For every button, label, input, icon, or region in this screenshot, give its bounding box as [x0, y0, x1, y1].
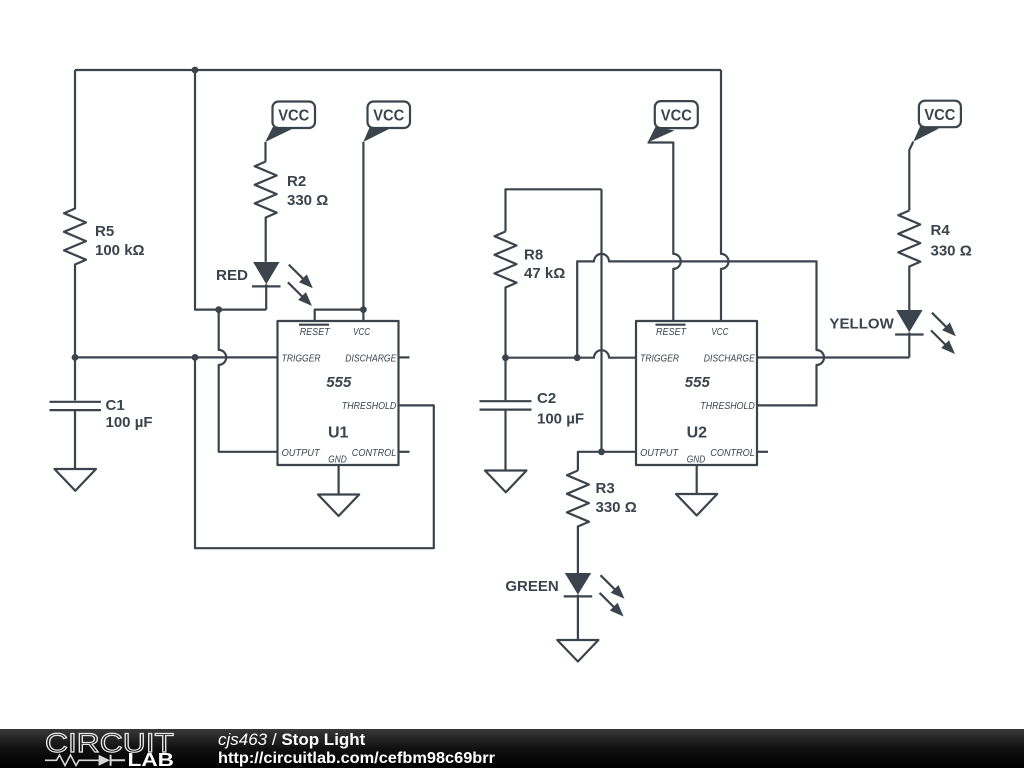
- resistor R4: [898, 211, 920, 311]
- svg-text:http://circuitlab.com/cefbm98c: http://circuitlab.com/cefbm98c69brr: [218, 750, 495, 767]
- resistor R2: [255, 162, 277, 262]
- VCC flag 2 (above U1 VCC pin): [363, 102, 410, 143]
- node junction dot output-node x=218.7: [215, 306, 222, 313]
- svg-text:100 µF: 100 µF: [106, 414, 153, 431]
- resistor R3: [567, 471, 589, 574]
- svg-text:330 Ω: 330 Ω: [596, 499, 637, 516]
- wire VCC2 down to U1 VCC/RESET node: [362, 142, 364, 310]
- wire VCC1 to R2: [264, 142, 266, 162]
- svg-text:330 Ω: 330 Ω: [287, 192, 328, 209]
- svg-text:VCC: VCC: [373, 108, 404, 125]
- ground under C2: [485, 471, 527, 493]
- ground under U1: [318, 495, 359, 517]
- node junction dot trigger/threshold loop x=195: [192, 354, 199, 361]
- ground under GREEN LED: [557, 640, 598, 662]
- ground under U2: [676, 494, 717, 516]
- svg-text:TRIGGER: TRIGGER: [640, 354, 679, 365]
- svg-text:THRESHOLD: THRESHOLD: [700, 401, 755, 412]
- wire U1 GND stub: [338, 465, 340, 495]
- node junction dot U1 VCC: [360, 306, 367, 313]
- svg-text:GREEN: GREEN: [505, 578, 558, 595]
- wire U2 GND stub: [696, 465, 698, 494]
- svg-text:LAB: LAB: [128, 750, 175, 768]
- wire U2 trigger line (hops at x=601.5): [506, 350, 637, 358]
- svg-text:R3: R3: [596, 480, 615, 497]
- svg-text:C1: C1: [106, 397, 125, 414]
- op-amp/timer U1 555 box: [278, 321, 399, 465]
- svg-text:U1: U1: [328, 425, 349, 442]
- svg-text:R8: R8: [524, 247, 543, 264]
- svg-text:VCC: VCC: [661, 107, 692, 124]
- resistor R5: [64, 70, 86, 357]
- svg-text:VCC: VCC: [711, 327, 729, 338]
- svg-text:RED: RED: [216, 267, 248, 284]
- svg-text:TRIGGER: TRIGGER: [282, 354, 321, 365]
- node junction dot U2 output x=601.5: [598, 448, 605, 455]
- wire U1 output node: rail drop at x=195 down and right to RED LED cathode: [195, 70, 266, 310]
- svg-text:RESET: RESET: [656, 327, 687, 338]
- capacitor C1: [50, 357, 102, 469]
- svg-text:VCC: VCC: [353, 327, 371, 338]
- wire U2 CONTROL stub: [757, 451, 768, 453]
- timer U2 555 box: [636, 321, 757, 465]
- ground under C1: [55, 469, 97, 491]
- wire from R8 top line down to U2 OUTPUT node: [600, 189, 602, 452]
- svg-text:YELLOW: YELLOW: [829, 316, 894, 333]
- svg-text:330 Ω: 330 Ω: [931, 243, 972, 260]
- VCC flag 1 (above R2): [265, 102, 315, 143]
- svg-text:THRESHOLD: THRESHOLD: [342, 401, 397, 412]
- wire U1 CONTROL stub: [399, 451, 410, 453]
- wire U1 trigger line from C1 node to TRIGGER pin: [75, 356, 278, 358]
- svg-text:GND: GND: [328, 454, 347, 465]
- wire top rail drop to U2 VCC pin (hops over tie wire): [721, 70, 729, 321]
- wire output riser: from output node down to U1 OUTPUT pin (hops over trigger wire): [219, 310, 278, 452]
- svg-text:47 kΩ: 47 kΩ: [524, 265, 565, 282]
- svg-text:555: 555: [685, 374, 711, 391]
- node junction dot at top rail x=195: [192, 67, 199, 74]
- svg-text:100 µF: 100 µF: [537, 411, 584, 428]
- svg-text:VCC: VCC: [924, 107, 955, 124]
- capacitor C2: [480, 401, 532, 470]
- wire U2 OUTPUT to R3 corner: [578, 452, 636, 471]
- svg-text:RESET: RESET: [300, 327, 331, 338]
- wire U1 RESET-VCC tie: [315, 310, 364, 321]
- wire threshold-trigger loop of U1: [195, 357, 434, 548]
- node junction dot R5/C1/trigger: [72, 354, 79, 361]
- svg-text:U2: U2: [687, 425, 708, 442]
- node junction dot tie/trigger x=577.2: [574, 354, 581, 361]
- svg-text:C2: C2: [537, 390, 556, 407]
- wire threshold-trigger tie of U2 (hop at x=601.5, corner at 816.5, hop over LED wire): [577, 254, 824, 406]
- svg-text:OUTPUT: OUTPUT: [282, 448, 321, 459]
- svg-text:555: 555: [326, 374, 352, 391]
- svg-text:CONTROL: CONTROL: [352, 448, 397, 459]
- logo resistor squiggle and diode: [45, 755, 99, 766]
- svg-text:CONTROL: CONTROL: [710, 448, 755, 459]
- LED YELLOW: [895, 310, 956, 358]
- LED RED: [252, 262, 313, 310]
- LED GREEN: [564, 573, 625, 640]
- svg-text:VCC: VCC: [278, 108, 309, 125]
- svg-text:DISCHARGE: DISCHARGE: [704, 354, 755, 365]
- wire top rail from R5 to U2 VCC drop: [75, 69, 721, 71]
- wire U1 DISCHARGE stub: [399, 356, 410, 358]
- wire YELLOW LED to U2 DISCHARGE: [757, 356, 909, 358]
- node junction dot R8/C2/U2-trigger: [502, 354, 509, 361]
- wire VCC3 to U2 RESET (hops over tie wire): [648, 143, 681, 322]
- svg-text:R2: R2: [287, 173, 306, 190]
- svg-text:GND: GND: [687, 454, 706, 465]
- wire VCC4 to R4: [909, 142, 913, 211]
- svg-text:R5: R5: [95, 223, 114, 240]
- svg-text:100 kΩ: 100 kΩ: [95, 242, 145, 259]
- resistor R8 with top wire to x=601.5: [506, 189, 602, 231]
- svg-text:cjs463 / Stop Light: cjs463 / Stop Light: [218, 730, 366, 749]
- svg-text:OUTPUT: OUTPUT: [640, 448, 679, 459]
- VCC flag 4 (above R4): [913, 101, 961, 142]
- svg-text:DISCHARGE: DISCHARGE: [345, 354, 396, 365]
- svg-text:R4: R4: [931, 222, 951, 239]
- VCC flag 3 (to U2 RESET): [648, 101, 698, 142]
